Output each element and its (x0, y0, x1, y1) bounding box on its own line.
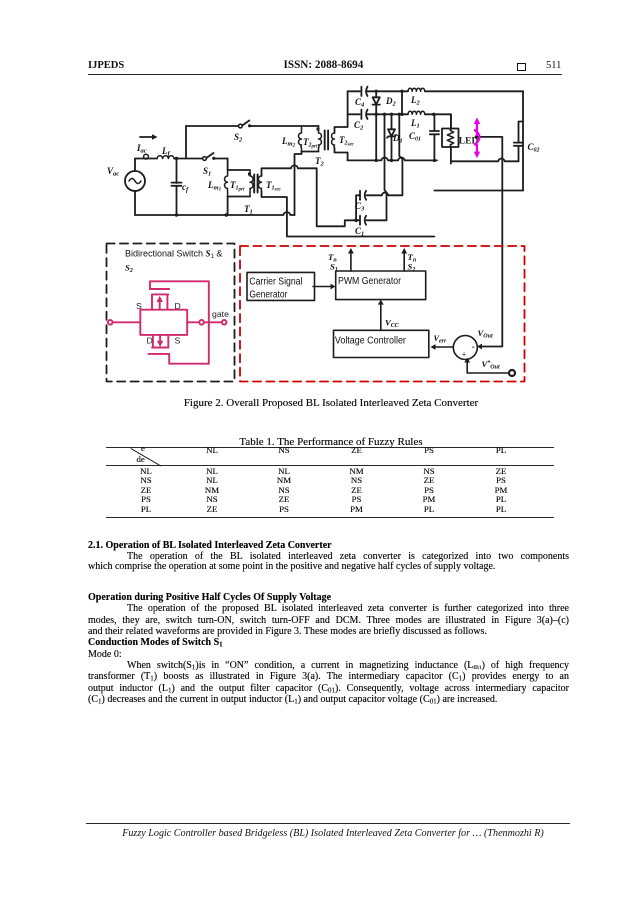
wire output rail (348, 158, 437, 161)
node LED anode (475, 135, 479, 139)
wire output mid (348, 114, 451, 128)
block PWM generator (336, 271, 426, 300)
svg-text:gate: gate (212, 309, 229, 319)
svg-text:Voltage Controller: Voltage Controller (335, 335, 407, 346)
winding T2pri (319, 126, 322, 152)
wire T2 combo bottom (302, 151, 319, 153)
svg-text:C1: C1 (355, 226, 364, 238)
svg-text:C2: C2 (354, 120, 364, 132)
inductor Lm1 (225, 170, 228, 197)
wire output top (348, 90, 523, 92)
svg-text:Carrier Signal: Carrier Signal (249, 277, 302, 288)
wire S1 to T1 (214, 158, 228, 160)
terminal left (108, 320, 113, 325)
diode D1 (387, 114, 396, 160)
svg-text:D: D (147, 336, 153, 346)
svg-text:T1sec: T1sec (266, 180, 282, 193)
node input filter (175, 157, 178, 160)
polarity dot T2pri (317, 128, 320, 131)
svg-text:D: D (175, 301, 181, 311)
wire S2 top (186, 125, 239, 127)
wire feedback Vout (481, 137, 502, 347)
capacitor C4 (361, 87, 367, 96)
terminal right (199, 320, 204, 325)
svg-text:VCC: VCC (385, 318, 400, 330)
capacitor Cf (172, 159, 182, 217)
block carrier signal generator (247, 272, 315, 300)
ac source Vac (125, 171, 145, 191)
wire right terminal lead (187, 321, 199, 323)
inductor Lf (157, 156, 174, 159)
wire T2sec top (335, 91, 348, 133)
transistor Q1 (upper MOSFET) (150, 281, 209, 363)
svg-text:PWM Generator: PWM Generator (338, 276, 402, 287)
inductor L1 (408, 111, 425, 114)
svg-text:S: S (175, 336, 181, 346)
node top wire junctions (375, 90, 437, 162)
svg-text:Lm1: Lm1 (207, 180, 221, 193)
wire link L2-L1 (401, 91, 403, 114)
wire PWM output Tn S1 (350, 253, 352, 272)
bidirectional switch dashed box (107, 244, 235, 382)
svg-text:L1: L1 (410, 118, 420, 130)
svg-text:-: - (472, 342, 475, 353)
wire outer right (522, 91, 524, 190)
capacitor C02 (514, 122, 523, 162)
wire T2sec bottom (335, 148, 348, 160)
svg-text:+: + (462, 350, 467, 360)
svg-text:Vac: Vac (107, 166, 119, 178)
svg-text:S1: S1 (203, 166, 211, 178)
svg-text:Lf: Lf (161, 146, 171, 158)
svg-text:Lm2: Lm2 (281, 136, 296, 149)
svg-text:Bidirectional Switch S1 &: Bidirectional Switch S1 & (125, 249, 222, 261)
core T2 (325, 131, 328, 150)
svg-text:D2: D2 (385, 96, 397, 108)
wire T1sec top to C1 node (262, 165, 357, 226)
svg-text:S: S (136, 301, 142, 311)
LED light arrows (474, 117, 480, 158)
wire Vac bottom lead (134, 191, 136, 215)
svg-text:S1: S1 (330, 262, 338, 274)
wire input top (135, 158, 157, 160)
wire T1 combo to rail (227, 197, 229, 216)
wire T1 combo bottom (228, 196, 250, 198)
svg-text:C02: C02 (528, 142, 540, 154)
transistor Q2 (lower MOSFET) (148, 335, 169, 354)
capacitor C1 (356, 216, 386, 225)
inductor L2 (408, 88, 425, 91)
current sensor loop Iac (144, 154, 149, 159)
wire body rectangle (140, 310, 187, 335)
data rows (136, 467, 156, 476)
svg-text:C3: C3 (355, 201, 365, 213)
wire vertical to C3 with jog (399, 114, 402, 195)
controller dashed box (240, 246, 525, 382)
node C1-C3 junction (354, 219, 358, 223)
wire Vcc (380, 304, 382, 330)
svg-text:Iac: Iac (136, 143, 147, 155)
wire vertical C2 leg with jog to C1 (385, 114, 387, 220)
inductor Lm2 (299, 126, 302, 152)
wire outer bottom (434, 190, 523, 192)
capacitor C3 (356, 191, 402, 221)
capacitor C2 (361, 110, 367, 119)
polarity dot T1pri (248, 173, 251, 176)
svg-text:cf: cf (182, 182, 189, 194)
winding T1sec (258, 176, 261, 191)
svg-text:S2: S2 (234, 132, 243, 144)
wire Lf to node (174, 158, 202, 160)
svg-text:T2: T2 (315, 156, 325, 168)
wire PWM output Tn S2 (403, 253, 405, 272)
svg-text:D1: D1 (392, 133, 403, 145)
svg-text:T2sec: T2sec (339, 135, 355, 148)
wire Verr (435, 346, 453, 348)
terminal Vout reference (509, 370, 515, 376)
capacitor C01 (430, 114, 439, 160)
wire LED bottom to C02 (451, 159, 519, 162)
svg-text:C4: C4 (355, 97, 365, 109)
summing junction (453, 336, 477, 360)
svg-text:C01: C01 (409, 131, 421, 143)
winding T2sec (332, 133, 335, 148)
wire left terminal lead (112, 321, 140, 323)
header row (202, 446, 222, 455)
svg-text:T2pri: T2pri (303, 137, 318, 150)
node Cf bottom rail (225, 213, 229, 217)
core T1 (254, 175, 257, 193)
wire T2 combo to rail end (295, 152, 302, 216)
wire S2 to T2 (250, 125, 319, 127)
wire gate lead (204, 321, 222, 323)
svg-text:T1: T1 (244, 204, 253, 216)
svg-text:V*Out: V*Out (482, 359, 500, 371)
wire carrier to PWM (313, 286, 331, 288)
svg-text:T1pri: T1pri (230, 180, 245, 193)
terminal gate (222, 320, 227, 325)
arrow Iac direction (140, 134, 158, 139)
block voltage controller (334, 330, 429, 357)
wire vertical D2 leg (375, 114, 377, 160)
LED block (442, 114, 459, 163)
svg-text:S2: S2 (125, 263, 133, 275)
wire LED anode right (477, 136, 502, 138)
diode D2 (373, 91, 380, 114)
svg-text:Verr: Verr (434, 334, 447, 345)
svg-text:L2: L2 (410, 95, 421, 107)
switch S1 (203, 153, 216, 160)
svg-text:VOut: VOut (478, 328, 493, 340)
wire T1sec bottom return (262, 191, 435, 237)
wire Vac top lead (134, 159, 136, 172)
switch S2 (239, 121, 252, 128)
wire T1 combo feed (228, 159, 250, 171)
wire Vout reference input (467, 362, 509, 374)
svg-text:Generator: Generator (249, 289, 288, 300)
wire bottom rail (135, 212, 295, 215)
winding T1pri (250, 170, 253, 197)
wire S2 branch riser (185, 126, 187, 159)
